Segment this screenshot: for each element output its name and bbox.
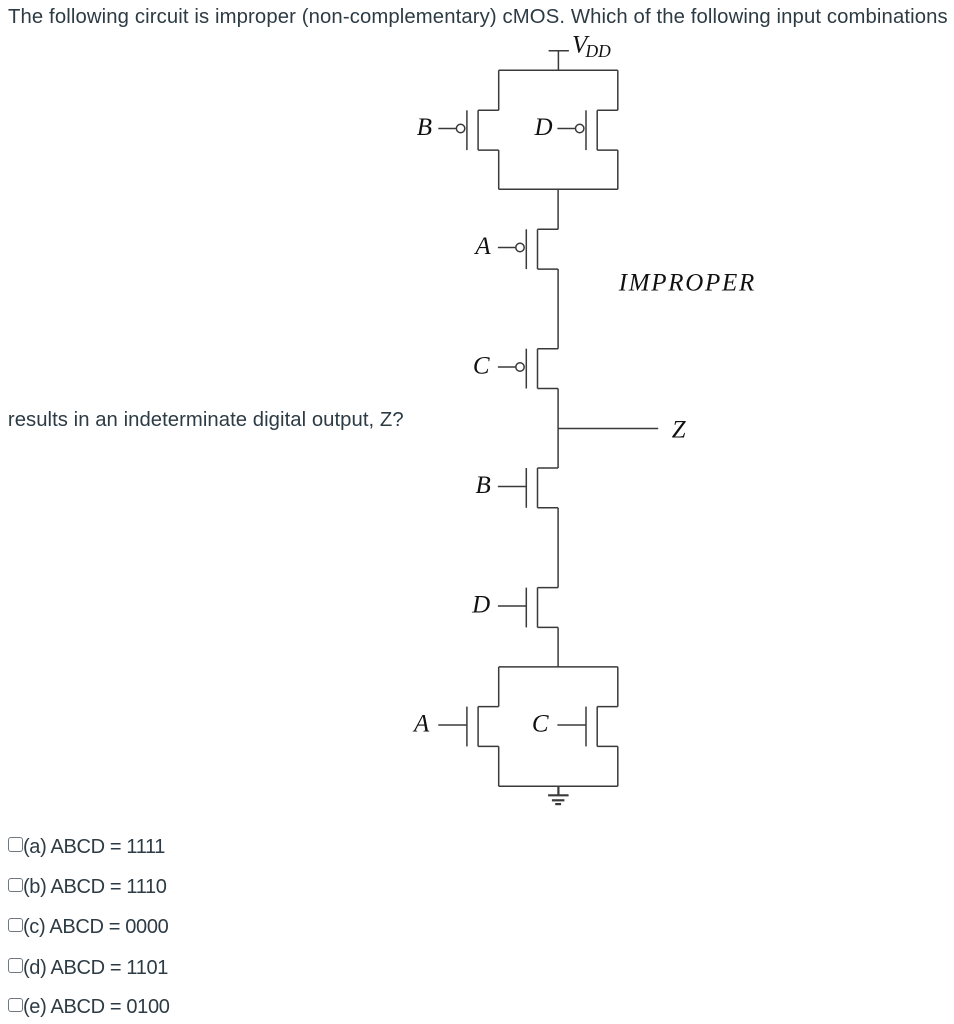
svg-text:A: A (473, 233, 491, 260)
question text line 2 (8, 410, 404, 430)
transistor NMOS A (bottom-left) (438, 707, 498, 747)
svg-text:B: B (476, 472, 491, 499)
svg-text:D: D (471, 591, 490, 618)
transistor PMOS A (498, 229, 558, 269)
svg-text:D: D (533, 114, 552, 141)
top parallel box outline (499, 70, 618, 189)
option d (8, 958, 23, 973)
transistor NMOS B (498, 468, 558, 508)
question text line 1 (8, 7, 948, 27)
node Z wire (558, 428, 658, 430)
wire: NMOS D to bottom box (557, 627, 559, 667)
transistor PMOS B (top-left) (438, 110, 498, 150)
transistor NMOS C (bottom-right) (557, 707, 617, 747)
VDD power symbol (549, 51, 569, 71)
wire: PMOS C to NMOS B with Z tap (557, 389, 559, 469)
transistor PMOS D (top-right) (557, 110, 617, 150)
svg-text:IMPROPER: IMPROPER (618, 269, 756, 296)
svg-text:A: A (412, 710, 430, 737)
option c (8, 918, 23, 933)
VDD label (572, 32, 611, 62)
svg-text:B: B (417, 114, 432, 141)
option a (8, 837, 23, 852)
bottom parallel box outline (499, 667, 618, 786)
svg-text:DD: DD (585, 41, 612, 61)
option b (8, 878, 23, 893)
svg-text:C: C (532, 710, 549, 737)
wire: top box to PMOS A (557, 189, 559, 229)
wire: NMOS B to NMOS D (557, 508, 559, 588)
transistor NMOS D (498, 588, 558, 628)
option e (8, 998, 23, 1013)
transistor PMOS C (498, 349, 558, 389)
svg-text:Z: Z (672, 417, 687, 444)
ground symbol (548, 786, 569, 804)
svg-text:C: C (473, 352, 490, 379)
wire: PMOS A to PMOS C (557, 269, 559, 349)
